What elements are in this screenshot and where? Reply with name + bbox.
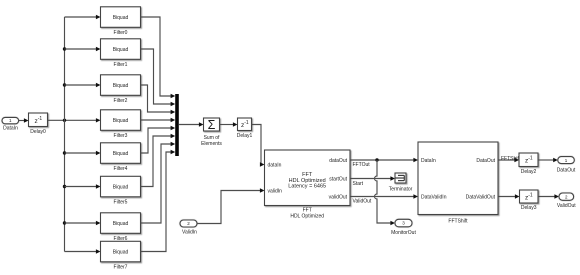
svg-text:MonitorOut: MonitorOut — [391, 230, 416, 236]
node junction on FFTOut — [375, 158, 378, 161]
wire input bus vertical — [64, 17, 66, 252]
outport DataOut (1) — [557, 157, 576, 174]
svg-text:DataIn: DataIn — [3, 126, 18, 132]
wire Filter1 out to mux port2 — [141, 49, 176, 106]
wire FFT startOut to Terminator, label Start — [350, 176, 395, 187]
inport DataIn (1) — [2, 117, 19, 131]
biquad filter Filter0 — [101, 7, 141, 36]
wire branch to Filter5 — [65, 184, 101, 188]
node junction on input bus — [63, 119, 66, 122]
svg-text:Elements: Elements — [201, 141, 222, 147]
wire Filter7 out to mux port8 — [141, 150, 176, 252]
svg-text:Delay0: Delay0 — [30, 129, 46, 135]
svg-text:Filter3: Filter3 — [114, 133, 128, 139]
biquad filter Filter3 — [101, 110, 141, 139]
svg-text:Filter4: Filter4 — [114, 166, 128, 172]
wire branch to Filter7 — [65, 249, 101, 253]
sum block Sum of Elements — [201, 118, 222, 147]
delay block Delay0 — [29, 113, 48, 135]
svg-text:DataOut: DataOut — [476, 158, 495, 164]
svg-text:Terminator: Terminator — [389, 187, 413, 193]
svg-text:ValidOut: ValidOut — [557, 203, 576, 209]
svg-text:Biquad: Biquad — [113, 184, 129, 190]
wire Delay3 to ValidOut port — [538, 194, 559, 198]
svg-text:Σ: Σ — [208, 118, 216, 132]
svg-text:Filter7: Filter7 — [114, 264, 128, 270]
svg-text:Delay2: Delay2 — [521, 169, 537, 175]
svg-text:validIn: validIn — [268, 188, 283, 194]
wire FFT validOut to FFTShift DataValidIn, label ValidOut — [350, 194, 418, 204]
delay block Delay2 — [519, 153, 538, 175]
wire DataIn to Delay0 — [19, 118, 29, 122]
svg-text:dataIn: dataIn — [268, 162, 282, 168]
svg-text:Delay3: Delay3 — [521, 205, 537, 211]
svg-text:Delay1: Delay1 — [237, 133, 253, 139]
wire Filter6 out to mux port7 — [141, 142, 176, 223]
wire branch to Filter6 — [65, 221, 101, 225]
FFTShift subsystem block — [418, 142, 498, 224]
node junction Filter5 branch — [63, 185, 66, 188]
delay block Delay3 — [520, 190, 539, 211]
wire Delay2 to DataOut port — [538, 158, 558, 162]
wire Delay0 to Filter3 row — [48, 118, 101, 122]
wire branch FFTOut down to MonitorOut with hops — [375, 160, 396, 225]
svg-text:Filter0: Filter0 — [114, 30, 128, 36]
wire FFTShift DataValidOut to Delay3 — [498, 194, 520, 198]
wire FFTShift DataOut to Delay2, label FFTShiftOut — [498, 158, 519, 162]
svg-text:DataIn: DataIn — [421, 158, 436, 164]
svg-text:Latency = 6465: Latency = 6465 — [288, 184, 326, 190]
svg-text:DataValidIn: DataValidIn — [421, 194, 447, 200]
inport ValidIn (2) — [180, 220, 197, 235]
wire FFT dataOut to FFTShift DataIn, label FFTOut — [350, 158, 418, 168]
node junction Filter6 branch — [63, 221, 66, 224]
node junction Filter2 branch — [63, 83, 66, 86]
wire mux to Sum of Elements — [179, 122, 204, 126]
wire branch to Filter1 — [65, 47, 101, 51]
wire branch to Filter4 — [65, 151, 101, 155]
svg-text:FFTOut: FFTOut — [353, 162, 371, 168]
biquad filter Filter2 — [101, 75, 141, 104]
svg-text:Biquad: Biquad — [113, 15, 129, 21]
terminator block — [389, 173, 413, 193]
wire Filter3 out to mux port4 — [141, 118, 176, 122]
biquad filter Filter1 — [101, 39, 141, 68]
svg-text:validOut: validOut — [329, 194, 348, 200]
svg-text:HDL Optimized: HDL Optimized — [290, 213, 324, 219]
biquad filter Filter7 — [101, 241, 141, 270]
svg-text:FFTShift: FFTShift — [448, 218, 468, 224]
wire branch to Filter0 — [65, 15, 101, 19]
svg-text:dataOut: dataOut — [329, 158, 347, 164]
svg-text:Start: Start — [353, 181, 364, 187]
FFT HDL Optimized block U1 — [265, 150, 351, 219]
svg-text:ValidIn: ValidIn — [182, 229, 197, 235]
node junction Filter4 branch — [63, 151, 66, 154]
wire ValidIn to FFT validIn — [197, 188, 265, 223]
biquad filter Filter4 — [101, 143, 141, 172]
svg-text:Biquad: Biquad — [113, 83, 129, 89]
wire Delay1 to FFT dataIn — [252, 125, 265, 167]
svg-text:Biquad: Biquad — [113, 118, 129, 124]
svg-text:Filter5: Filter5 — [114, 199, 128, 205]
wire Filter5 out to mux port6 — [141, 134, 176, 187]
svg-text:startOut: startOut — [329, 176, 347, 182]
svg-text:Filter1: Filter1 — [114, 62, 128, 68]
svg-text:Biquad: Biquad — [113, 151, 129, 157]
wire branch to Filter2 — [65, 83, 101, 87]
biquad filter Filter6 — [101, 213, 141, 242]
wire Filter4 out to mux port5 — [141, 126, 176, 153]
mux vector concatenate bar — [175, 94, 179, 156]
outport MonitorOut (3) — [391, 219, 416, 236]
svg-text:Biquad: Biquad — [113, 221, 129, 227]
biquad filter Filter5 — [101, 176, 141, 205]
wire Sum to Delay1 — [220, 122, 238, 126]
svg-text:Biquad: Biquad — [113, 249, 129, 255]
svg-text:DataOut: DataOut — [557, 167, 576, 173]
svg-text:ValidOut: ValidOut — [353, 198, 372, 204]
svg-text:Biquad: Biquad — [113, 47, 129, 53]
svg-text:Filter2: Filter2 — [114, 98, 128, 104]
svg-text:DataValidOut: DataValidOut — [466, 194, 496, 200]
wire Filter0 out to mux port1 — [141, 17, 176, 98]
node junction Filter1 branch — [63, 47, 66, 50]
wire Filter2 out to mux port3 — [141, 85, 176, 114]
delay block Delay1 — [237, 118, 253, 139]
outport ValidOut (2) — [557, 193, 576, 209]
